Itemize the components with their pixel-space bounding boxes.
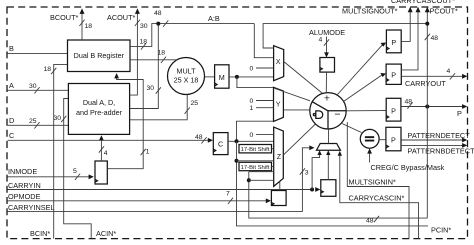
svg-text:Y: Y — [276, 100, 281, 109]
svg-text:Dual A, D,: Dual A, D, — [83, 98, 115, 107]
wire INMODE reg to pre-adder — [100, 137, 102, 161]
svg-text:PATTERNBDETECT: PATTERNBDETECT — [408, 146, 474, 155]
svg-text:0: 0 — [250, 98, 254, 105]
svg-text:CARRYOUT: CARRYOUT — [405, 79, 446, 88]
bus width 25 on A to MULT — [185, 107, 190, 113]
bus width 30 on ACOUT — [135, 20, 140, 26]
svg-text:Dual B Register: Dual B Register — [74, 51, 125, 60]
svg-text:and Pre-adder: and Pre-adder — [76, 108, 123, 117]
register M — [215, 65, 229, 88]
svg-text:P: P — [457, 109, 462, 118]
svg-text:MULTSIGNIN*: MULTSIGNIN* — [349, 178, 396, 187]
svg-text:INMODE: INMODE — [8, 167, 37, 176]
wire P feedback bottom — [249, 172, 427, 218]
wire BCIN vertical — [54, 64, 68, 238]
wire B input — [8, 53, 68, 55]
register Dual B Register — [68, 40, 131, 72]
svg-text:0: 0 — [250, 132, 254, 139]
wire BCOUT with arrow — [81, 12, 83, 40]
svg-text:A: A — [9, 81, 14, 90]
wire P feedback upper tap to Z — [249, 171, 274, 173]
register C — [213, 133, 228, 155]
svg-text:X: X — [276, 57, 281, 66]
constant 1 into Y — [256, 107, 274, 109]
bus width 30 on ACIN — [61, 116, 66, 122]
register ALUMODE — [320, 58, 335, 73]
bus width 1 on INMODE to Dual B — [141, 149, 146, 155]
svg-text:5: 5 — [73, 168, 77, 175]
wire M to ALU (upper) — [274, 88, 311, 101]
svg-text:18: 18 — [44, 66, 52, 73]
node A:B junction — [156, 22, 160, 26]
svg-text:4: 4 — [319, 37, 323, 44]
svg-text:D: D — [9, 116, 14, 125]
svg-text:P: P — [391, 136, 396, 145]
wire ALU to P main — [347, 110, 386, 112]
wire Y output to ALU — [283, 109, 310, 111]
svg-text:PCOUT*: PCOUT* — [430, 7, 459, 16]
wire ACOUT with arrow — [130, 12, 138, 95]
svg-text:30: 30 — [54, 115, 62, 122]
wire ALU to P multsign — [337, 44, 384, 95]
bus width 5 on INMODE — [75, 174, 80, 180]
svg-text:18: 18 — [85, 23, 93, 30]
wire P feedback to X — [263, 24, 427, 48]
svg-text:PATTERNDETECT: PATTERNDETECT — [408, 131, 471, 140]
bus width 48 on P output — [407, 102, 412, 108]
svg-text:CARRYCASCIN*: CARRYCASCIN* — [349, 194, 405, 203]
wire CARRYINSEL to carry mux — [302, 148, 311, 212]
constant 0 into X — [256, 67, 274, 69]
wire CARRYOUT — [401, 75, 464, 77]
svg-text:17-Bit Shift: 17-Bit Shift — [241, 147, 270, 153]
bus width 7 on OPMODE — [228, 198, 233, 204]
svg-text:48: 48 — [366, 218, 374, 225]
wire CARRYIN bypass to carry mux — [312, 152, 320, 189]
wire C input — [8, 139, 209, 141]
svg-text:C: C — [9, 131, 14, 140]
wire C output — [228, 140, 274, 142]
svg-text:7: 7 — [226, 191, 230, 198]
wire C to Y mux — [237, 121, 274, 141]
svg-text:CREG/C Bypass/Mask: CREG/C Bypass/Mask — [371, 163, 445, 172]
bus width 4 on CARRYOUT — [450, 73, 455, 79]
svg-text:4: 4 — [447, 68, 451, 75]
svg-text:B: B — [9, 44, 14, 53]
svg-text:BCIN*: BCIN* — [30, 229, 50, 238]
register CARRYIN — [321, 180, 336, 197]
node CARRYIN junction — [310, 188, 314, 192]
svg-text:3: 3 — [305, 170, 309, 177]
svg-text:P: P — [391, 71, 396, 80]
svg-text:25 X 18: 25 X 18 — [174, 76, 199, 85]
register P main — [386, 98, 401, 121]
svg-text:BCOUT*: BCOUT* — [50, 13, 79, 22]
svg-text:48: 48 — [431, 35, 439, 42]
svg-text:18: 18 — [158, 50, 166, 57]
mux carry select — [317, 144, 341, 151]
wire B to MULT — [130, 59, 177, 61]
wire A input — [8, 89, 69, 91]
wire MULT to M — [205, 76, 215, 78]
wire PCIN vertical with taps — [237, 141, 429, 226]
wire CARRYIN input — [8, 189, 312, 191]
svg-text:25: 25 — [29, 118, 37, 125]
bus width 3 on CARRYINSEL — [300, 168, 305, 174]
bus width 30 on A concat — [156, 87, 161, 93]
shifter 17-Bit Shift lower — [239, 162, 272, 170]
mux Y — [274, 87, 284, 121]
wire comparator to P pattern — [379, 139, 386, 141]
bus width 48 on P feedback — [374, 216, 379, 222]
wire OPMODE input — [8, 200, 267, 202]
svg-text:P: P — [391, 38, 396, 47]
bus width 48 on C — [201, 137, 206, 143]
wire ALUMODE reg to ALU — [325, 72, 327, 93]
wire A to A:B concat — [130, 24, 159, 109]
svg-text:17-Bit Shift: 17-Bit Shift — [241, 165, 270, 171]
register P carryout — [386, 64, 401, 84]
wire PATTERNBDETECT — [401, 144, 465, 146]
node PCOUT top junction — [425, 22, 429, 26]
shifter 17-Bit Shift upper — [239, 145, 272, 153]
bus width 18 on BCIN — [51, 68, 56, 74]
svg-text:A:B: A:B — [208, 14, 220, 23]
wire D input — [8, 124, 69, 126]
wire P feedback into Z — [249, 179, 274, 181]
wire MULTSIGNOUT — [401, 11, 410, 42]
svg-text:48: 48 — [405, 99, 413, 106]
block Dual A, D, and Pre-adder — [68, 84, 129, 135]
wire PCOUT and P feedback vertical — [426, 11, 428, 219]
svg-text:ACIN*: ACIN* — [96, 229, 116, 238]
bus width 18 on B to MULT — [161, 57, 166, 63]
wire tap to Z (PCIN) — [237, 160, 274, 162]
alu logic gate symbol — [316, 111, 323, 119]
wire CARRYCASCIN — [340, 154, 419, 239]
wire M output — [229, 76, 274, 78]
wire carry mux to ALU — [328, 129, 330, 144]
svg-text:25: 25 — [191, 100, 199, 107]
wire ALU to P carryout — [344, 74, 384, 102]
svg-text:MULT: MULT — [176, 67, 196, 76]
wire B to A:B concat — [130, 24, 254, 47]
bus width 18 on B concat — [141, 43, 146, 49]
mux X — [274, 46, 284, 81]
svg-text:ALUMODE: ALUMODE — [309, 28, 345, 37]
node P feedback to Z — [247, 178, 251, 182]
bus width 18 on BCOUT — [79, 20, 84, 26]
wire P output — [401, 106, 465, 108]
svg-text:1: 1 — [146, 149, 150, 156]
wire OPMODE reg to Z select — [279, 181, 281, 190]
svg-text:M: M — [219, 73, 225, 82]
svg-text:1: 1 — [250, 105, 254, 112]
svg-text:CARRYINSEL: CARRYINSEL — [8, 203, 55, 212]
wire M to Y mux — [237, 77, 274, 88]
svg-text:4: 4 — [104, 150, 108, 157]
svg-text:30: 30 — [147, 85, 155, 92]
svg-text:CARRYIN: CARRYIN — [8, 181, 41, 190]
constant 0 into Y — [256, 100, 274, 102]
wire ALUMODE input — [326, 37, 328, 56]
wire A to MULT — [130, 95, 188, 120]
wire CREG/C bypass mask feed — [369, 151, 371, 163]
node M output junction — [235, 75, 239, 79]
svg-text:+: + — [324, 93, 330, 105]
register INMODE — [95, 161, 107, 184]
svg-text:ACOUT*: ACOUT* — [107, 13, 136, 22]
svg-text:30: 30 — [29, 83, 37, 90]
wire CARRYCASCOUT — [401, 11, 418, 70]
node P output junction — [425, 105, 429, 109]
wire Z output to ALU — [283, 124, 315, 155]
node PCIN to shift tap — [235, 159, 239, 163]
comparator = — [360, 129, 379, 148]
svg-text:CARRYCASCOUT*: CARRYCASCOUT* — [391, 0, 455, 5]
constant 0 into Z — [256, 134, 274, 136]
wire CARRYINSEL input — [8, 211, 303, 213]
svg-text:P: P — [391, 107, 396, 116]
svg-text:C: C — [218, 140, 223, 149]
wire INMODE input — [8, 176, 90, 178]
register P pattern — [386, 127, 401, 151]
svg-text:48: 48 — [154, 10, 162, 17]
svg-text:18: 18 — [140, 39, 148, 46]
svg-text:0: 0 — [250, 66, 254, 73]
bus width 4 on INMODE to pre-adder — [99, 146, 104, 152]
register OPMODE — [271, 191, 286, 206]
mux Z — [274, 127, 284, 186]
svg-text:−: − — [334, 108, 340, 120]
svg-text:PCIN*: PCIN* — [431, 225, 451, 234]
bus width 25 on D — [34, 122, 39, 128]
register P multsign — [386, 30, 401, 53]
wire CARRYIN reg to carry mux — [327, 152, 329, 180]
alu circle — [310, 93, 346, 129]
wire MULTSIGNIN — [347, 122, 409, 239]
wire PATTERNDETECT — [401, 139, 465, 141]
svg-text:MULTSIGNOUT*: MULTSIGNOUT* — [342, 7, 398, 16]
bus width 30 on A — [34, 87, 39, 93]
node C junction — [235, 139, 239, 143]
svg-text:48: 48 — [195, 134, 203, 141]
svg-text:30: 30 — [140, 23, 148, 30]
wire INMODE reg to Dual B register — [107, 76, 143, 169]
svg-text:Z: Z — [277, 152, 282, 161]
wire ACIN vertical — [64, 99, 91, 239]
svg-text:OPMODE: OPMODE — [8, 192, 41, 201]
bus width 48 on A:B — [163, 20, 168, 26]
bus width 48 on PCOUT — [425, 34, 430, 40]
wire X output to ALU — [284, 62, 323, 94]
wire ALU to comparator — [342, 124, 362, 133]
multiplier MULT 25x18 — [168, 58, 205, 95]
wire A:B down to X mux — [254, 24, 273, 58]
